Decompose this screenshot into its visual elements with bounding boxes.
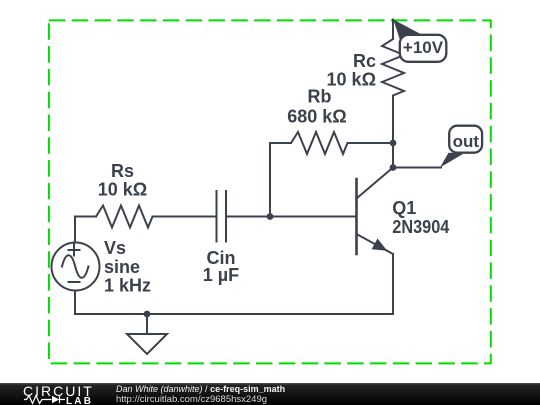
svg-text:1 µF: 1 µF bbox=[203, 265, 239, 285]
wire: Rc bottom to Rb node bbox=[392, 96, 394, 144]
wire: collector node to out callout bbox=[393, 167, 441, 169]
svg-text:LAB: LAB bbox=[66, 396, 93, 405]
source Vs sine wave bbox=[62, 255, 88, 278]
logo resistor-diode glyph bbox=[24, 396, 65, 404]
source Vs minus sign bbox=[69, 281, 80, 283]
junction node: ground bbox=[144, 311, 151, 318]
out callout box bbox=[449, 126, 482, 153]
svg-text:http://circuitlab.com/cz9685hs: http://circuitlab.com/cz9685hsx249g bbox=[116, 394, 267, 405]
svg-text:1 kHz: 1 kHz bbox=[104, 276, 151, 296]
junction node: Rb/Rc bbox=[390, 140, 397, 147]
wire: source top to input rail bbox=[74, 217, 76, 243]
ground triangle bbox=[127, 334, 167, 354]
capacitor Cin right plate bbox=[225, 191, 227, 242]
resistor Rc bbox=[382, 39, 404, 96]
source Vs plus sign bbox=[69, 245, 80, 256]
transistor Q1 emitter lead bbox=[357, 234, 394, 254]
wire: input rail into Rs bbox=[75, 216, 96, 218]
out callout tail bbox=[440, 153, 465, 168]
svg-text:Rc: Rc bbox=[353, 51, 376, 71]
+10V callout tail bbox=[393, 20, 422, 42]
wire: emitter down bbox=[392, 254, 394, 314]
wire: supply top bbox=[392, 20, 394, 40]
junction node: collector/out bbox=[390, 164, 397, 171]
junction node: base/Rb bbox=[267, 213, 274, 220]
wire: to Rb left bbox=[270, 142, 291, 144]
capacitor C in left plate bbox=[216, 191, 218, 242]
wire: bottom rail bbox=[75, 313, 393, 315]
svg-text:Dan White (danwhite) / ce-freq: Dan White (danwhite) / ce-freq-sim_math bbox=[116, 384, 285, 394]
source Vs circle bbox=[52, 243, 100, 291]
svg-text:680 kΩ: 680 kΩ bbox=[287, 106, 346, 126]
svg-text:Q1: Q1 bbox=[392, 198, 416, 218]
wire: Rs to Cin bbox=[153, 216, 217, 218]
svg-text:sine: sine bbox=[104, 257, 140, 277]
svg-text:out: out bbox=[453, 132, 480, 151]
svg-text:Vs: Vs bbox=[104, 238, 126, 258]
dashed selection border bbox=[49, 20, 491, 363]
wire: Rb right to collector rail bbox=[348, 142, 394, 144]
wire: Rb node to collector node bbox=[392, 143, 394, 168]
wire: node up to Rb bbox=[269, 143, 271, 217]
resistor Rs bbox=[96, 206, 153, 228]
svg-text:Rs: Rs bbox=[111, 161, 134, 181]
ground stem bbox=[146, 314, 148, 334]
svg-text:2N3904: 2N3904 bbox=[392, 217, 449, 237]
wire: Cin to base (through node) bbox=[226, 216, 357, 218]
transistor Q1 emitter arrow bbox=[372, 239, 386, 250]
transistor Q1 base bar bbox=[355, 179, 358, 254]
transistor Q1 collector lead bbox=[357, 168, 394, 199]
svg-text:+10V: +10V bbox=[403, 38, 444, 57]
wire: source bottom bbox=[74, 291, 76, 315]
resistor Rb bbox=[291, 132, 348, 154]
svg-text:10 kΩ: 10 kΩ bbox=[327, 69, 376, 89]
svg-text:10 kΩ: 10 kΩ bbox=[98, 179, 147, 199]
+10V callout box bbox=[400, 35, 447, 62]
